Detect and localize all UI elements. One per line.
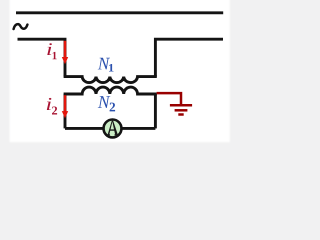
wire primary right riser and bottom bus right segment (155, 39, 223, 76)
label i1 (47, 43, 56, 59)
wire bottom bus left segment with corner down to primary (18, 39, 66, 76)
current arrow i1 on primary drop (62, 41, 68, 64)
wire top bus line (16, 11, 223, 14)
ground symbol (170, 105, 192, 114)
wire secondary right drop (154, 94, 157, 128)
ammeter A (meter circle) (104, 120, 122, 138)
label N1 (98, 58, 114, 72)
label i2 (47, 98, 57, 115)
inductor N2 secondary winding (64, 87, 157, 94)
label N2 (98, 96, 115, 111)
wire ground branch (red) (157, 93, 181, 104)
wire secondary left drop (64, 94, 67, 128)
inductor N1 primary winding (64, 77, 157, 83)
wire secondary bottom segment (65, 127, 155, 130)
current arrow i2 on secondary left drop (62, 95, 68, 118)
AC source symbol ~ (14, 24, 28, 29)
